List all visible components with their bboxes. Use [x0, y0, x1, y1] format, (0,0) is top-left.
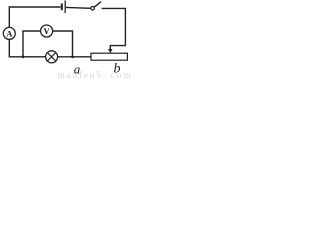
svg-text:A: A — [6, 29, 13, 39]
svg-text:V: V — [44, 26, 51, 36]
voltmeter V body — [41, 25, 53, 37]
switch S1 blade (open) — [94, 2, 101, 7]
voltmeter branch wire right — [53, 31, 73, 57]
lamp L cross stroke 2 — [47, 53, 55, 61]
svg-text:a: a — [74, 62, 81, 77]
switch S1 pivot — [91, 7, 95, 11]
node junction left (voltmeter tap) — [22, 55, 25, 58]
svg-text:manfen5. com: manfen5. com — [58, 70, 133, 78]
rheostat R body — [91, 53, 127, 60]
battery B1 positive plate (long thin) — [64, 0, 66, 13]
lamp L cross stroke 1 — [47, 53, 55, 61]
ammeter A body — [3, 27, 15, 39]
lamp L body — [46, 51, 58, 63]
battery B1 negative plate (short thick) — [61, 3, 63, 10]
wire top-left (left vertical + top horizontal to battery) — [9, 7, 60, 28]
svg-text:b: b — [114, 62, 121, 77]
wire ammeter down to bottom rail, left of lamp — [9, 39, 45, 57]
wire battery to switch — [66, 6, 91, 9]
wire switch to right corner and down to slider arm — [102, 8, 126, 49]
voltmeter branch wire left — [23, 31, 40, 57]
wire lamp to rheostat — [58, 56, 91, 58]
rheostat slider arrowhead — [108, 49, 112, 53]
node junction right (voltmeter tap) — [71, 55, 74, 58]
